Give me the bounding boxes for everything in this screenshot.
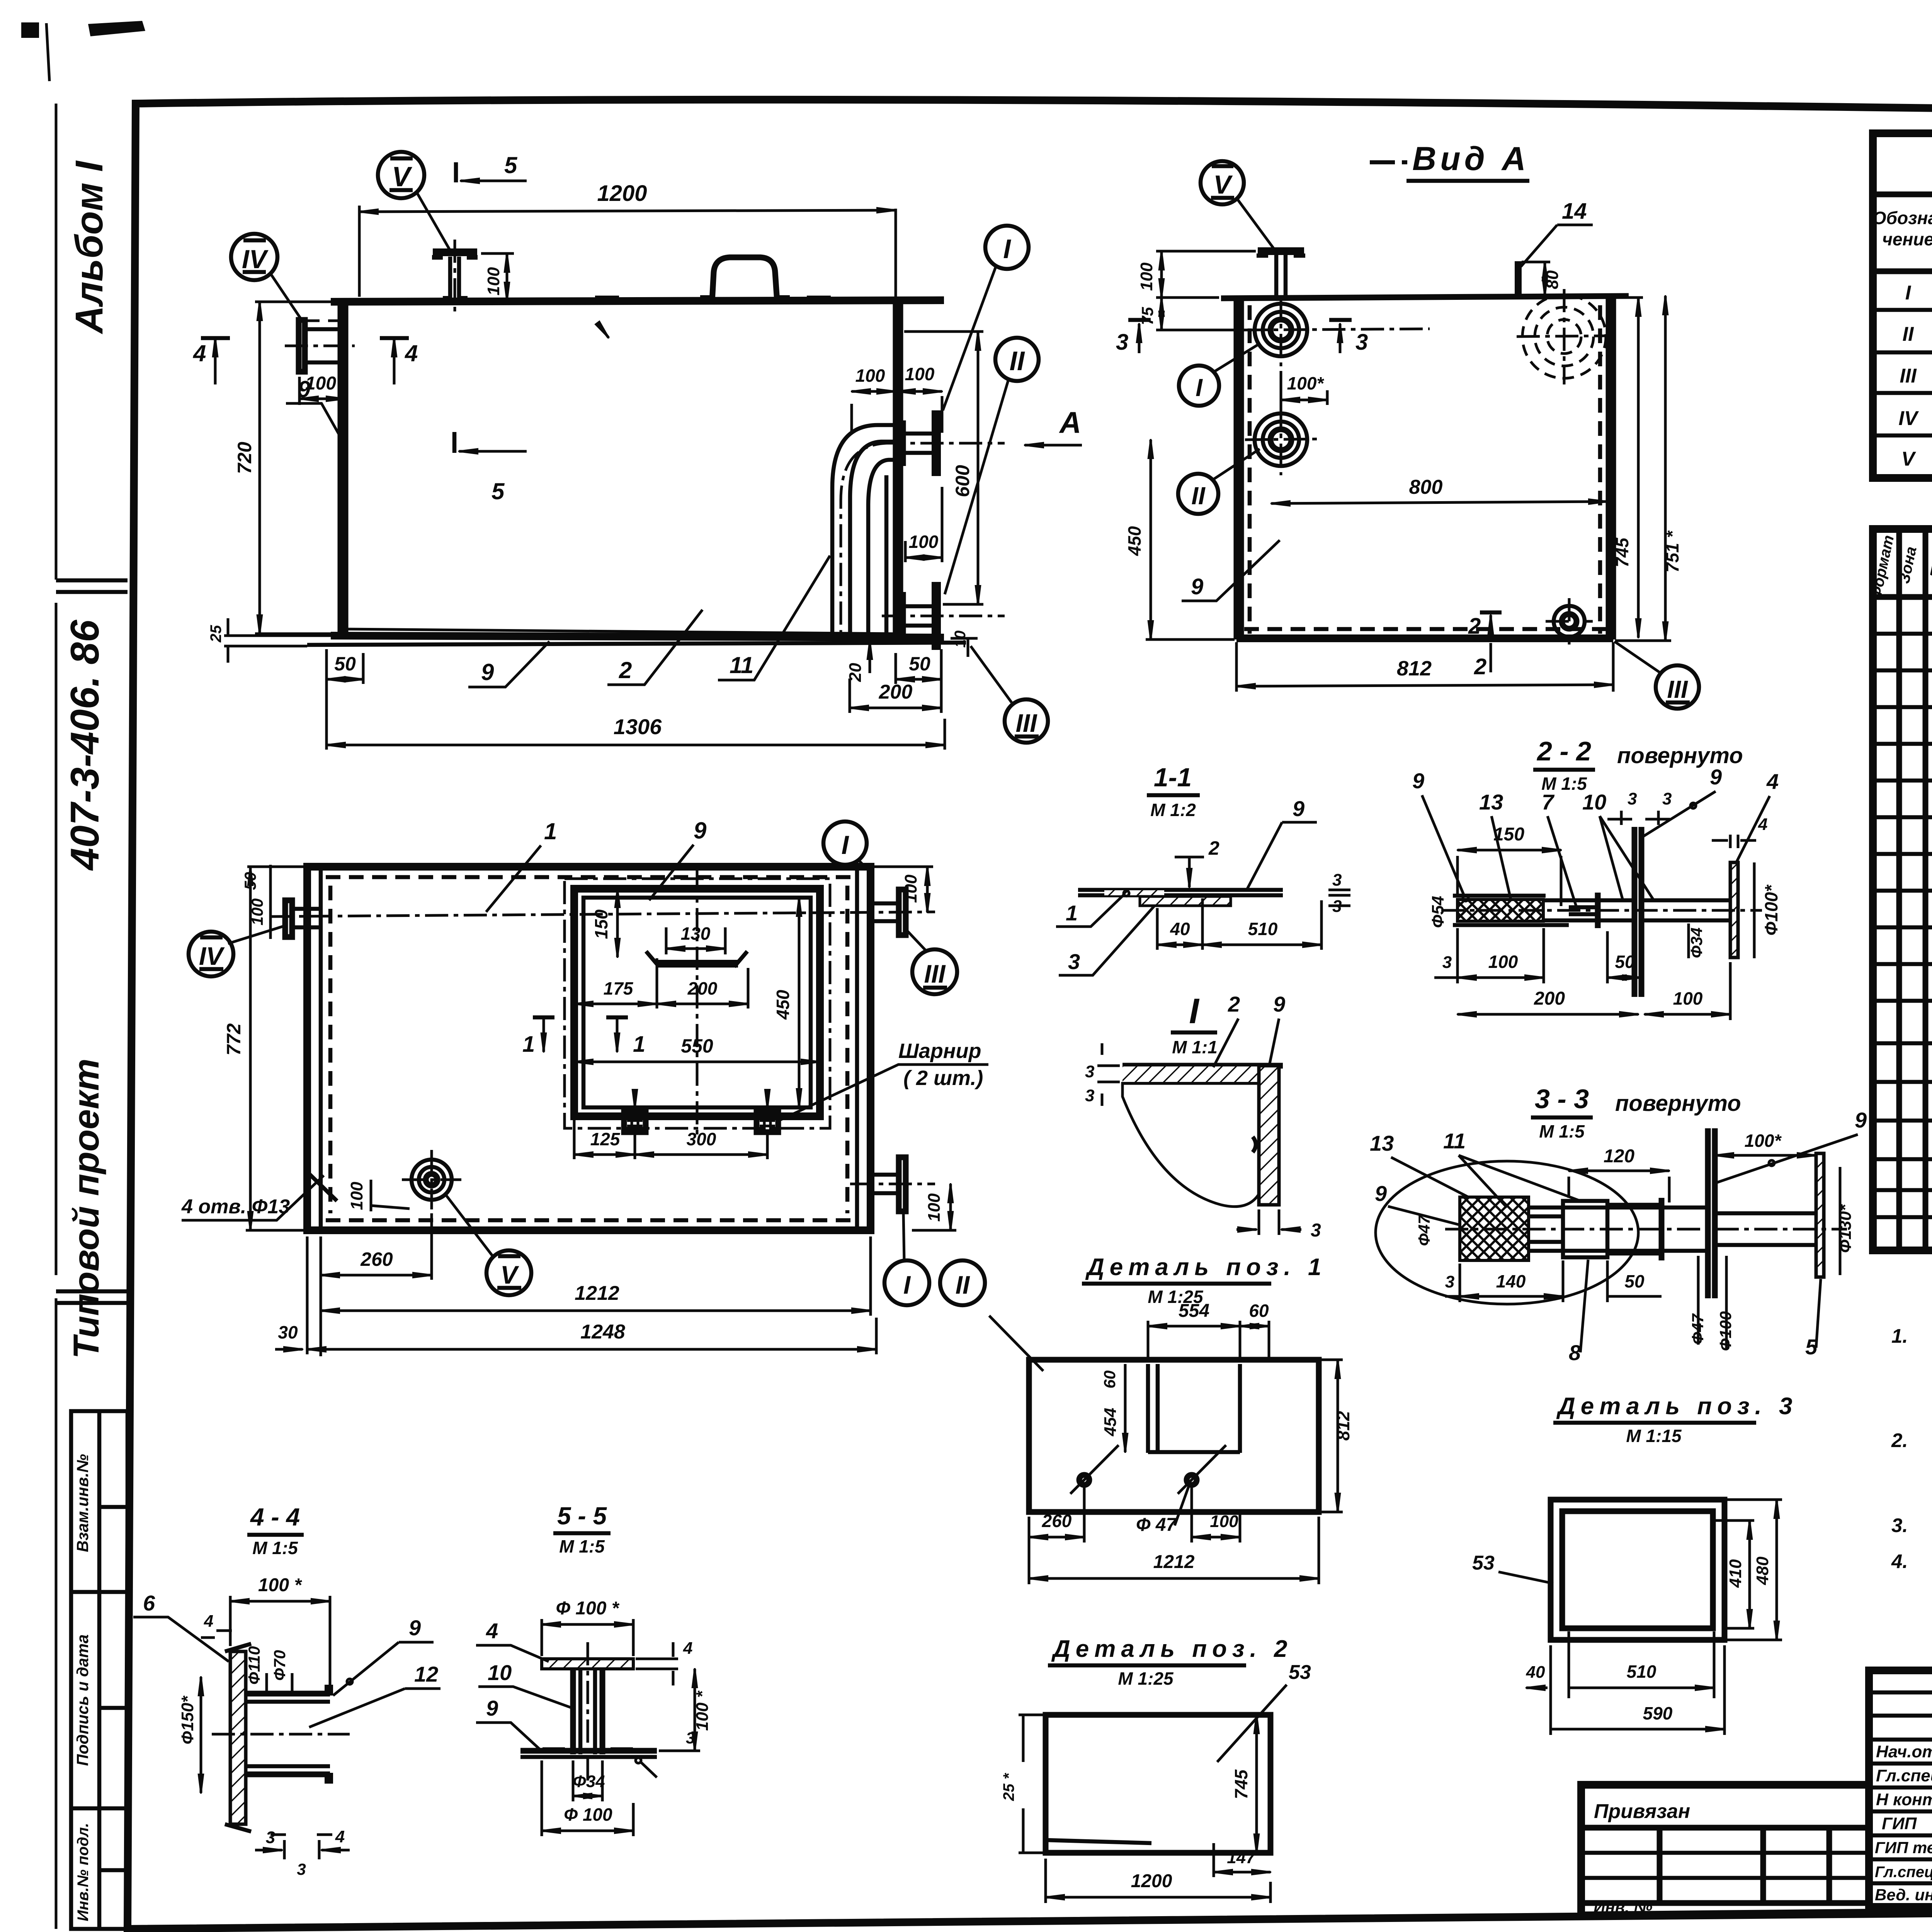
flange I (right wall) bbox=[900, 434, 932, 453]
svg-text:Подпись и дата: Подпись и дата bbox=[73, 1634, 92, 1766]
svg-text:40: 40 bbox=[1170, 919, 1190, 939]
svg-text:М 1:15: М 1:15 bbox=[1626, 1426, 1682, 1446]
svg-text:1: 1 bbox=[522, 1032, 535, 1057]
svg-text:2: 2 bbox=[1228, 992, 1240, 1016]
svg-text:9: 9 bbox=[481, 659, 494, 685]
svg-text:150: 150 bbox=[591, 909, 611, 939]
svg-text:40: 40 bbox=[1526, 1663, 1545, 1682]
svg-text:100: 100 bbox=[1673, 988, 1703, 1009]
5-5 centerline bbox=[587, 1642, 589, 1781]
svg-text:Вед. инж.: Вед. инж. bbox=[1875, 1886, 1932, 1904]
dim 720 (left) bbox=[259, 302, 261, 634]
5-5 top flange (hatched) bbox=[542, 1659, 633, 1669]
svg-text:II: II bbox=[1010, 346, 1025, 376]
svg-text:1: 1 bbox=[1066, 901, 1078, 925]
svg-text:1: 1 bbox=[544, 818, 557, 844]
svg-text:I: I bbox=[1905, 282, 1912, 304]
svg-text:100: 100 bbox=[347, 1182, 366, 1210]
dim 450 (hatch) bbox=[798, 898, 801, 1107]
plan hatch dash-dot frame bbox=[565, 879, 830, 1128]
svg-text:407-3-406. 86: 407-3-406. 86 bbox=[63, 619, 107, 871]
svg-text:200: 200 bbox=[687, 978, 718, 998]
svg-text:8: 8 bbox=[1569, 1340, 1581, 1365]
tank inner bottom (sloped) bbox=[345, 629, 896, 634]
small boss (view A bottom right) bbox=[1554, 606, 1585, 637]
svg-text:2: 2 bbox=[1474, 654, 1486, 679]
node I circle (plan corner) bbox=[823, 821, 867, 865]
svg-text:100: 100 bbox=[1210, 1512, 1238, 1531]
circle III label (view A) bbox=[1656, 665, 1699, 709]
svg-text:II: II bbox=[956, 1270, 970, 1299]
svg-text:9: 9 bbox=[409, 1616, 421, 1640]
pos1 dim 812 bbox=[1321, 1360, 1343, 1512]
svg-text:3: 3 bbox=[1442, 953, 1452, 972]
1-1 overlay plate (hatched) bbox=[1140, 896, 1231, 906]
section mark 5 (lower) bbox=[452, 432, 457, 453]
svg-text:13: 13 bbox=[1370, 1131, 1394, 1155]
svg-text:ГИП: ГИП bbox=[1882, 1814, 1917, 1833]
pos1 dim 260 bbox=[1029, 1487, 1084, 1584]
dim 200 bbox=[849, 679, 851, 713]
svg-text:Привязан: Привязан bbox=[1594, 1800, 1690, 1823]
parts table outer border bbox=[1873, 529, 1932, 1250]
flange table row lines bbox=[1873, 310, 1932, 435]
svg-text:М 1:2: М 1:2 bbox=[1150, 800, 1196, 820]
pos2 dim 147 bbox=[1213, 1843, 1215, 1877]
svg-text:745: 745 bbox=[1231, 1769, 1251, 1799]
flange I rear (view A) bbox=[1255, 304, 1307, 356]
svg-text:9: 9 bbox=[694, 818, 707, 844]
svg-text:Ф100*: Ф100* bbox=[1761, 884, 1781, 936]
dim 100 (plan right lower) bbox=[949, 1184, 952, 1230]
svg-text:510: 510 bbox=[1248, 919, 1278, 939]
svg-text:10: 10 bbox=[488, 1660, 512, 1685]
svg-text:300: 300 bbox=[687, 1129, 716, 1149]
svg-text:М 1:5: М 1:5 bbox=[559, 1536, 605, 1556]
view A bottom bbox=[1236, 634, 1613, 642]
svg-text:100: 100 bbox=[1488, 952, 1518, 972]
pos1 corner leader bbox=[989, 1316, 1043, 1371]
section mark 3 (left) bbox=[1128, 318, 1151, 322]
svg-text:IV: IV bbox=[199, 942, 225, 970]
3-3 bottom dims 3 140 50 bbox=[1445, 1260, 1607, 1302]
dim 175 / 200 bbox=[657, 958, 748, 1009]
5-5 dim Ф34 bbox=[573, 1760, 602, 1801]
svg-text:1200: 1200 bbox=[597, 181, 647, 206]
svg-text:590: 590 bbox=[1643, 1703, 1673, 1723]
svg-text:Деталь поз. 3: Деталь поз. 3 bbox=[1556, 1393, 1798, 1420]
section mark 3 (right) bbox=[1329, 318, 1352, 322]
svg-text:100*: 100* bbox=[1287, 373, 1325, 393]
svg-text:( 2 шт.): ( 2 шт.) bbox=[903, 1066, 983, 1090]
svg-text:80: 80 bbox=[1543, 270, 1562, 289]
dim 772 (plan left) bbox=[249, 867, 252, 1230]
svg-text:Гл.спец.: Гл.спец. bbox=[1876, 1766, 1932, 1785]
svg-text:Гл.спец.тех: Гл.спец.тех bbox=[1875, 1864, 1932, 1881]
svg-text:5: 5 bbox=[504, 152, 518, 178]
svg-text:100: 100 bbox=[901, 874, 920, 903]
dim 50 (left bottom) bbox=[362, 653, 365, 684]
svg-text:Альбом I: Альбом I bbox=[68, 160, 111, 335]
svg-text:Ф130*: Ф130* bbox=[1836, 1204, 1855, 1253]
svg-text:Шарнир: Шарнир bbox=[898, 1039, 981, 1063]
svg-text:V: V bbox=[500, 1260, 519, 1289]
pos3 frame inner bbox=[1562, 1511, 1713, 1628]
4-4 dim 100* bbox=[230, 1596, 330, 1689]
circle III label (plan) bbox=[912, 949, 957, 994]
svg-text:2: 2 bbox=[1208, 837, 1219, 859]
svg-text:II: II bbox=[1191, 482, 1206, 510]
node I weld bbox=[1253, 1137, 1256, 1152]
dim 800 (view A) bbox=[1271, 502, 1607, 503]
2-2 dim 150 bbox=[1458, 849, 1561, 852]
svg-text:100: 100 bbox=[925, 1193, 944, 1222]
dim 745 / 751* (view A right) bbox=[1615, 296, 1643, 299]
svg-text:V: V bbox=[1213, 170, 1233, 199]
svg-text:I: I bbox=[1003, 234, 1011, 264]
circle V label bbox=[378, 152, 424, 198]
flange III (plan right) bbox=[899, 889, 906, 935]
5-5 right dims 4 100* 3 bbox=[636, 1659, 678, 1669]
svg-text:751 *: 751 * bbox=[1662, 530, 1682, 573]
pin 14 (view A) bbox=[1515, 261, 1522, 297]
svg-text:125: 125 bbox=[590, 1129, 621, 1149]
5-5 dim Ф100* top bbox=[542, 1619, 633, 1656]
5-5 dim Ф100 bbox=[542, 1760, 633, 1836]
2-2 flange plate bbox=[1730, 862, 1738, 957]
dim 50/100 (plan top left) bbox=[247, 865, 307, 939]
svg-text:100: 100 bbox=[909, 532, 939, 552]
circle I label bbox=[985, 226, 1029, 269]
2-2 wall plate bbox=[1634, 827, 1641, 997]
pos2 sheet rect bbox=[1046, 1715, 1270, 1853]
svg-text:53: 53 bbox=[1289, 1661, 1311, 1684]
svg-text:Инв.№ подл.: Инв.№ подл. bbox=[75, 1823, 92, 1922]
title block outer border bbox=[1869, 1670, 1932, 1907]
flange table header bottom line bbox=[1873, 269, 1932, 274]
svg-text:Обозна-: Обозна- bbox=[1872, 208, 1932, 228]
svg-text:75: 75 bbox=[1138, 307, 1156, 325]
dim 100 (flange IV) bbox=[299, 377, 345, 405]
svg-text:М 1:5: М 1:5 bbox=[252, 1538, 298, 1558]
section mark 5 (top) bbox=[454, 162, 458, 182]
circle IV label (plan) bbox=[189, 932, 233, 976]
svg-text:IV: IV bbox=[242, 245, 269, 274]
plan flange centerline bbox=[270, 912, 935, 917]
4-4 pipe bbox=[246, 1694, 330, 1774]
2-2 bottom dims 3 100 50 bbox=[1434, 928, 1607, 983]
flange table title row line bbox=[1873, 192, 1932, 197]
svg-text:5 - 5: 5 - 5 bbox=[557, 1502, 607, 1530]
svg-text:1.: 1. bbox=[1891, 1325, 1908, 1347]
pos3 dim 410 480 bbox=[1715, 1500, 1782, 1640]
svg-text:Вид А: Вид А bbox=[1412, 140, 1530, 177]
dim 260 bbox=[321, 1213, 432, 1356]
view A top plate bbox=[1221, 296, 1629, 298]
section marks 2 (view A bottom) bbox=[1480, 611, 1502, 615]
svg-text:510: 510 bbox=[1627, 1662, 1656, 1682]
svg-text:3: 3 bbox=[1662, 789, 1672, 808]
outer left dash line bbox=[55, 104, 58, 1929]
parts table header bottom bbox=[1873, 594, 1932, 600]
svg-text:Ф150*: Ф150* bbox=[178, 1696, 197, 1745]
svg-text:454: 454 bbox=[1101, 1408, 1120, 1436]
svg-text:410: 410 bbox=[1726, 1559, 1745, 1588]
pos3 dims 40 510 590 bbox=[1551, 1631, 1725, 1735]
dashed boss (view A top right) bbox=[1522, 295, 1606, 378]
2-2 pipe body bbox=[1544, 900, 1634, 920]
vent stub V (view A) bbox=[1276, 255, 1286, 298]
svg-text:Ф34: Ф34 bbox=[573, 1772, 605, 1791]
svg-text:3: 3 bbox=[1085, 1086, 1094, 1105]
svg-text:1: 1 bbox=[633, 1032, 645, 1057]
tank left wall bbox=[340, 302, 345, 634]
circle V label (plan) bbox=[486, 1250, 531, 1295]
svg-text:1-1: 1-1 bbox=[1154, 763, 1192, 792]
svg-text:100 *: 100 * bbox=[258, 1575, 302, 1595]
svg-text:100: 100 bbox=[855, 366, 885, 386]
node I dim 3 bottom bbox=[1259, 1209, 1279, 1235]
svg-text:4.: 4. bbox=[1891, 1550, 1908, 1572]
vent flange cap bbox=[433, 248, 477, 256]
svg-text:А: А bbox=[1059, 405, 1081, 439]
svg-text:480: 480 bbox=[1753, 1556, 1772, 1585]
svg-text:130: 130 bbox=[681, 923, 711, 944]
left column row lines bbox=[1869, 1692, 1932, 1883]
section mark 4 (right) bbox=[393, 338, 396, 384]
svg-text:1248: 1248 bbox=[580, 1321, 625, 1343]
svg-text:1306: 1306 bbox=[614, 714, 662, 739]
flange I-II (plan right lower) bbox=[899, 1157, 906, 1211]
svg-text:450: 450 bbox=[773, 990, 793, 1020]
svg-text:200: 200 bbox=[879, 681, 913, 703]
node I top plate (hatched) bbox=[1122, 1066, 1283, 1082]
handle on top bbox=[712, 257, 777, 301]
3-3 wall plate bbox=[1708, 1128, 1715, 1298]
dim 150 (hatch) bbox=[616, 889, 619, 957]
svg-text:100 *: 100 * bbox=[693, 1690, 712, 1731]
svg-text:11: 11 bbox=[730, 652, 753, 678]
svg-text:9: 9 bbox=[1375, 1181, 1387, 1206]
2-2 pipe through wall to flange bbox=[1641, 900, 1730, 920]
2-2 centerline bbox=[1441, 909, 1762, 912]
svg-text:9: 9 bbox=[1710, 765, 1722, 789]
svg-text:140: 140 bbox=[1496, 1271, 1526, 1291]
svg-text:4: 4 bbox=[1758, 815, 1767, 834]
3-3 pipe to flange bbox=[1715, 1213, 1816, 1245]
svg-text:I: I bbox=[1196, 374, 1203, 401]
dim 550 bbox=[574, 1061, 820, 1063]
svg-text:3.: 3. bbox=[1891, 1514, 1908, 1536]
4-4 dim 4 bbox=[201, 1631, 232, 1638]
pos1 dim 1212 bbox=[1318, 1517, 1320, 1584]
section mark 4 (left) bbox=[214, 338, 217, 384]
pos1 holes bbox=[1079, 1475, 1089, 1485]
svg-text:4: 4 bbox=[405, 340, 418, 366]
svg-text:повернуто: повернуто bbox=[1615, 1091, 1741, 1116]
dim 100 (vent height) bbox=[481, 252, 514, 255]
svg-text:147: 147 bbox=[1227, 1848, 1256, 1867]
svg-text:9: 9 bbox=[1273, 992, 1285, 1016]
svg-text:1200: 1200 bbox=[1131, 1871, 1172, 1891]
svg-text:III: III bbox=[1015, 709, 1037, 737]
svg-text:4: 4 bbox=[683, 1639, 692, 1658]
flange II (right wall) bbox=[900, 606, 932, 626]
tank right wall bbox=[896, 300, 900, 634]
plan double edge lines bbox=[321, 867, 857, 1230]
dim 600 (right) bbox=[977, 332, 980, 604]
hatch centerlines bbox=[696, 869, 699, 1140]
dim 812 (view A bottom) bbox=[1236, 642, 1613, 692]
svg-text:9: 9 bbox=[1412, 769, 1424, 793]
3-3 flange plate bbox=[1816, 1153, 1824, 1277]
pos2 dim 25 bbox=[1019, 1715, 1043, 1853]
привязан sub-table bbox=[1581, 1828, 1869, 1903]
svg-text:М 1:5: М 1:5 bbox=[1539, 1121, 1585, 1141]
svg-text:М 1:1: М 1:1 bbox=[1172, 1037, 1218, 1057]
hinge dim arrows bbox=[634, 1097, 636, 1108]
svg-text:745: 745 bbox=[1612, 537, 1632, 567]
svg-text:III: III bbox=[924, 959, 946, 988]
pos1 cutout bbox=[1148, 1364, 1240, 1453]
svg-text:7: 7 bbox=[1542, 790, 1555, 814]
small arrow on top plate bbox=[598, 324, 609, 338]
pos2 dim 745 bbox=[1255, 1715, 1258, 1853]
circle II label (view A) bbox=[1178, 474, 1218, 514]
svg-text:Ф 100: Ф 100 bbox=[564, 1804, 612, 1825]
svg-text:Нач.отд.: Нач.отд. bbox=[1876, 1742, 1932, 1761]
svg-text:50: 50 bbox=[334, 653, 356, 675]
5-5 bottom plate bbox=[520, 1748, 657, 1754]
hatch cover outer rect bbox=[574, 889, 820, 1116]
svg-text:3: 3 bbox=[1445, 1272, 1454, 1291]
view A dashed inner walls bbox=[1244, 305, 1607, 634]
svg-text:1212: 1212 bbox=[575, 1282, 619, 1304]
pos1 sheet rect bbox=[1029, 1360, 1319, 1512]
svg-text:3: 3 bbox=[1068, 949, 1080, 974]
dim 1200 bbox=[359, 206, 896, 297]
circle II label (plan) bbox=[940, 1260, 985, 1305]
svg-text:Ф110: Ф110 bbox=[245, 1646, 263, 1685]
svg-text:60: 60 bbox=[1249, 1301, 1269, 1321]
2-2 mesh tube (cross-hatched) bbox=[1458, 900, 1543, 921]
svg-text:100: 100 bbox=[484, 267, 503, 296]
hinge left bbox=[624, 1111, 646, 1132]
left margin separators bbox=[56, 580, 128, 1303]
svg-text:чение: чение bbox=[1882, 229, 1932, 249]
5-5 vertical pipe bbox=[573, 1669, 602, 1754]
svg-text:14: 14 bbox=[1562, 199, 1587, 224]
dim 25 (left) bbox=[224, 618, 334, 663]
3-3 big loop bbox=[1376, 1161, 1638, 1304]
4-4 centerline bbox=[212, 1733, 350, 1736]
bottom-left small cells bbox=[71, 1411, 128, 1929]
svg-text:25: 25 bbox=[207, 625, 224, 643]
svg-text:100: 100 bbox=[1137, 262, 1156, 291]
pos1 dim 100 (hole) bbox=[1192, 1487, 1240, 1543]
svg-text:Взам.инв.№: Взам.инв.№ bbox=[73, 1454, 92, 1552]
plan outer sheet rect bbox=[307, 867, 871, 1230]
svg-text:3: 3 bbox=[1116, 330, 1128, 355]
svg-text:4: 4 bbox=[335, 1827, 345, 1846]
svg-text:1212: 1212 bbox=[1153, 1552, 1195, 1572]
flange II rear (view A) bbox=[1255, 413, 1307, 466]
V boss (plan) bbox=[412, 1160, 452, 1200]
svg-text:Ф34: Ф34 bbox=[1687, 927, 1706, 958]
dim 450 (view A left) bbox=[1150, 440, 1152, 639]
svg-text:9: 9 bbox=[1855, 1108, 1867, 1132]
dim 100 (lower right) bbox=[905, 487, 942, 562]
svg-text:3: 3 bbox=[1628, 789, 1637, 808]
svg-text:Инв. №: Инв. № bbox=[1594, 1898, 1652, 1916]
svg-text:М 1:25: М 1:25 bbox=[1118, 1668, 1174, 1689]
svg-text:I: I bbox=[842, 830, 850, 860]
dim 100 / 75 (view A left) bbox=[1156, 251, 1256, 330]
svg-text:3: 3 bbox=[1332, 871, 1342, 889]
dim 80 (pin) bbox=[1522, 261, 1550, 264]
svg-text:6: 6 bbox=[143, 1591, 155, 1615]
hatch cover inner rect bbox=[583, 898, 811, 1107]
svg-text:53: 53 bbox=[1472, 1552, 1495, 1574]
tank bottom plate bbox=[331, 636, 944, 638]
circle V label (view A) bbox=[1201, 161, 1244, 204]
svg-text:50: 50 bbox=[909, 653, 930, 675]
svg-text:11: 11 bbox=[1443, 1129, 1466, 1153]
svg-text:100: 100 bbox=[905, 364, 935, 384]
dim 1248 / 30 bbox=[307, 1236, 876, 1354]
vent centerline bbox=[454, 240, 456, 317]
tank top plate bbox=[331, 300, 944, 302]
svg-text:2.: 2. bbox=[1891, 1429, 1908, 1451]
svg-text:3: 3 bbox=[686, 1729, 695, 1747]
svg-text:9: 9 bbox=[298, 376, 311, 402]
svg-text:9: 9 bbox=[486, 1696, 498, 1720]
svg-text:3 - 3: 3 - 3 bbox=[1535, 1084, 1589, 1114]
circle I label (view A) bbox=[1179, 366, 1219, 406]
1-1 top sheet bbox=[1078, 890, 1283, 895]
svg-text:4: 4 bbox=[1766, 769, 1779, 794]
flange IV (plan left) bbox=[285, 900, 292, 937]
dim 10 (right, base) bbox=[951, 638, 978, 657]
svg-text:V: V bbox=[392, 162, 413, 192]
svg-text:10: 10 bbox=[1582, 790, 1606, 814]
svg-text:260: 260 bbox=[1042, 1511, 1072, 1531]
circle III label (below view) bbox=[1005, 699, 1048, 743]
plan hidden tank walls (dashed) bbox=[326, 877, 852, 1220]
pos1 dim 554 / 60 bbox=[1148, 1321, 1269, 1357]
3-3 centerline bbox=[1445, 1228, 1847, 1231]
svg-text:50: 50 bbox=[1624, 1271, 1645, 1291]
2-2 bottom dims 200 100 bbox=[1729, 962, 1732, 1020]
dim 100 (V boss offset) bbox=[370, 1180, 372, 1211]
svg-text:V: V bbox=[1901, 448, 1917, 470]
svg-text:812: 812 bbox=[1333, 1411, 1353, 1440]
hatch handle slot bbox=[657, 960, 738, 968]
svg-text:Н контр.: Н контр. bbox=[1876, 1790, 1932, 1809]
svg-text:12: 12 bbox=[414, 1662, 438, 1686]
2-2 dim 4 (flange) bbox=[1712, 835, 1756, 848]
svg-text:ГИП техн.: ГИП техн. bbox=[1875, 1838, 1932, 1857]
dim 1212 bbox=[869, 1236, 872, 1316]
1-1 dims 40 510 bbox=[1157, 898, 1321, 950]
svg-text:Ф 100 *: Ф 100 * bbox=[556, 1598, 620, 1619]
svg-text:Типовой проект: Типовой проект bbox=[66, 1058, 106, 1359]
svg-text:I: I bbox=[1189, 992, 1200, 1031]
top-left corner specks bbox=[21, 21, 145, 38]
svg-text:60: 60 bbox=[1100, 1371, 1119, 1389]
flange IV (left wall) bbox=[299, 320, 305, 372]
4-4 flange plate (hatched) bbox=[230, 1651, 246, 1824]
